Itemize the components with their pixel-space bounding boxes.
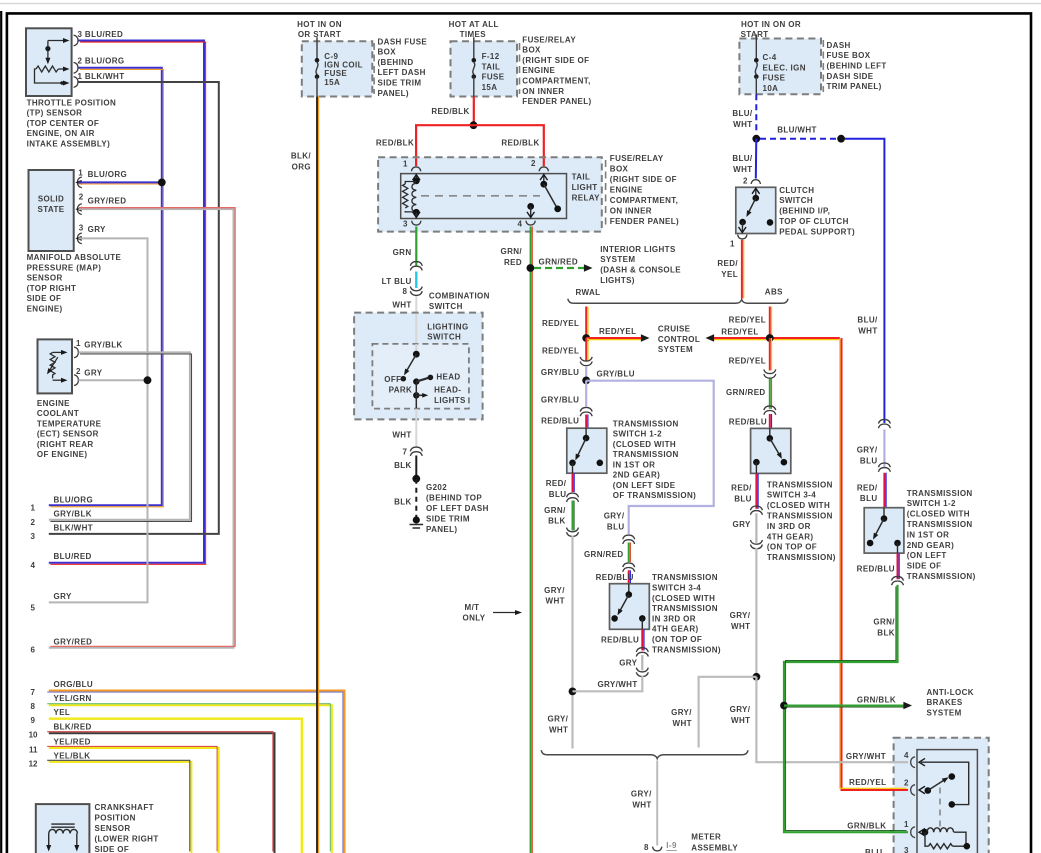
svg-text:TRANSMISSION: TRANSMISSION <box>652 604 718 613</box>
wire GRY/BLU short <box>585 366 587 380</box>
wire GRY/WHT from brace to meter <box>656 761 658 846</box>
dashed BLU/WHT horizontal <box>760 138 837 140</box>
switch arm bottom relay <box>925 787 932 794</box>
svg-text:BLU: BLU <box>549 490 567 499</box>
svg-text:TRANSMISSION: TRANSMISSION <box>907 520 973 529</box>
svg-text:4TH GEAR): 4TH GEAR) <box>767 532 814 541</box>
svg-text:BLK/: BLK/ <box>291 151 312 160</box>
wire RED/BLU into TS1-2 left <box>585 415 587 429</box>
ABS relay dashed box <box>894 738 989 853</box>
svg-text:OFF: OFF <box>384 375 401 384</box>
svg-text:BLU: BLU <box>860 494 878 503</box>
svg-text:OF LEFT DASH: OF LEFT DASH <box>426 504 489 513</box>
svg-text:SWITCH 1-2: SWITCH 1-2 <box>613 430 662 439</box>
wire RED/BLU below TS1-2 right <box>897 553 899 579</box>
svg-text:TOP OF CLUTCH: TOP OF CLUTCH <box>779 217 849 226</box>
svg-text:WHT: WHT <box>731 622 750 631</box>
svg-text:ENGINE): ENGINE) <box>27 304 63 313</box>
svg-text:(BEHIND LEFT: (BEHIND LEFT <box>827 62 887 71</box>
wire GRY: ECT pin2 to junction <box>79 379 148 381</box>
connector <box>764 369 776 378</box>
transmission switch 3-4 right box <box>751 428 791 473</box>
svg-text:ANTI-LOCK: ANTI-LOCK <box>927 688 974 697</box>
svg-text:4: 4 <box>31 561 36 570</box>
junction interior lights <box>527 264 535 272</box>
wire 7 ORG/BLU <box>49 691 345 853</box>
svg-text:WHT: WHT <box>731 716 750 725</box>
wire WHT below combination switch <box>415 409 417 448</box>
svg-text:M/T: M/T <box>465 603 480 612</box>
wire GRN/BLK branch to anti-lock arrow <box>784 705 904 707</box>
dashed BLU/WHT from C-4 <box>755 94 757 134</box>
svg-text:OR START: OR START <box>298 30 341 39</box>
wire RED/YEL long right drop to bottom relay pin 2 <box>842 338 907 790</box>
svg-text:HEAD-: HEAD- <box>434 385 461 394</box>
svg-text:WHT: WHT <box>733 165 752 174</box>
connector BLU/WHT to GRY/BLU far right <box>878 419 890 428</box>
svg-text:RED/BLU: RED/BLU <box>596 573 634 582</box>
svg-text:IN 1ST OR: IN 1ST OR <box>613 460 656 469</box>
svg-text:PEDAL SUPPORT): PEDAL SUPPORT) <box>779 227 855 236</box>
svg-text:WHT: WHT <box>632 801 651 810</box>
svg-text:IN 3RD OR: IN 3RD OR <box>767 522 811 531</box>
connector RED/YEL-GRY/BLU <box>580 357 592 366</box>
svg-text:ASSEMBLY: ASSEMBLY <box>691 844 738 853</box>
svg-text:TAIL: TAIL <box>572 172 591 181</box>
svg-text:4: 4 <box>518 219 523 228</box>
wire RED/YEL RWAL drop <box>585 307 587 339</box>
svg-text:ON INNER: ON INNER <box>610 207 652 216</box>
ECT pin 1 <box>74 347 78 358</box>
wire 10 BLK/RED <box>49 733 275 853</box>
wire RED/BLU below TS1-2 left <box>572 473 574 492</box>
svg-text:HOT IN ON: HOT IN ON <box>297 20 342 29</box>
svg-text:6: 6 <box>31 646 36 655</box>
relay pin 4 <box>911 757 915 768</box>
svg-text:PANEL): PANEL) <box>378 89 409 98</box>
tail light relay rect <box>401 174 567 219</box>
connector <box>750 506 762 515</box>
svg-text:(ECT) SENSOR: (ECT) SENSOR <box>37 430 99 439</box>
svg-text:5: 5 <box>31 604 36 613</box>
svg-text:ORG/BLU: ORG/BLU <box>54 680 94 689</box>
connector <box>636 668 648 677</box>
svg-text:TAIL: TAIL <box>482 62 501 71</box>
svg-text:RED/BLU: RED/BLU <box>541 416 579 425</box>
pin4 internal link <box>921 762 969 804</box>
svg-text:GRY/BLU: GRY/BLU <box>541 396 579 405</box>
MAP sensor box (solid state) <box>29 170 74 251</box>
svg-text:GRY/BLU: GRY/BLU <box>597 370 635 379</box>
svg-text:8: 8 <box>31 702 36 711</box>
svg-text:SYSTEM: SYSTEM <box>600 255 635 264</box>
svg-text:ENGINE, ON AIR: ENGINE, ON AIR <box>27 129 95 138</box>
svg-text:SIDE OF: SIDE OF <box>907 562 942 571</box>
connector pin 8 comb switch <box>410 287 422 296</box>
TP pin 1 <box>74 77 78 88</box>
relay pin 3 <box>412 221 421 225</box>
svg-text:RED/BLU: RED/BLU <box>729 418 767 427</box>
svg-text:HOT IN ON OR: HOT IN ON OR <box>741 20 801 29</box>
svg-text:WHT: WHT <box>392 431 411 440</box>
svg-text:BLU/: BLU/ <box>732 109 753 118</box>
svg-text:RED/YEL: RED/YEL <box>729 357 766 366</box>
svg-text:1 BLK/WHT: 1 BLK/WHT <box>78 72 125 81</box>
svg-text:C-4: C-4 <box>763 53 777 62</box>
svg-text:RED/YEL: RED/YEL <box>729 315 766 324</box>
connector <box>878 463 890 472</box>
transmission switch 1-2 right box <box>864 508 904 553</box>
svg-text:GRY/: GRY/ <box>548 714 569 723</box>
svg-text:(RIGHT REAR: (RIGHT REAR <box>37 440 94 449</box>
wire GRN/BLK down and to bottom relay pin 1 <box>784 585 907 832</box>
dashed actuation link <box>939 788 941 829</box>
svg-text:GRY/: GRY/ <box>730 705 751 714</box>
svg-text:3: 3 <box>31 532 36 541</box>
svg-text:TRANSMISSION): TRANSMISSION) <box>652 645 721 654</box>
svg-text:SWITCH 3-4: SWITCH 3-4 <box>652 584 701 593</box>
junction RED/YEL right <box>766 334 774 342</box>
connector <box>567 493 579 502</box>
svg-text:2: 2 <box>31 518 36 527</box>
svg-text:GRY: GRY <box>54 592 72 601</box>
wire BLU/RED: TP pin3 to wire 4 <box>49 41 204 563</box>
svg-text:WHT: WHT <box>673 719 692 728</box>
svg-text:1: 1 <box>904 820 909 829</box>
svg-text:SYSTEM: SYSTEM <box>927 709 962 718</box>
transmission switch 3-4 mid box <box>610 584 650 630</box>
junction cruise left <box>582 334 590 342</box>
wire GRY short right chain <box>755 513 757 543</box>
junction BLU/WHT 1 <box>752 135 760 143</box>
svg-text:RELAY: RELAY <box>572 194 601 203</box>
lighting switch inner dashed box <box>372 344 469 409</box>
svg-text:SIDE TRIM: SIDE TRIM <box>426 515 470 524</box>
svg-text:1: 1 <box>403 159 408 168</box>
svg-text:SWITCH 1-2: SWITCH 1-2 <box>907 499 956 508</box>
wire RED/YEL below junction <box>769 338 771 371</box>
wire RED/BLU into TS3-4 mid <box>628 570 630 583</box>
svg-text:YEL: YEL <box>721 270 738 279</box>
fuse F-12 TAIL <box>451 41 518 96</box>
svg-text:PRESSURE (MAP): PRESSURE (MAP) <box>27 263 102 272</box>
svg-text:CRANKSHAFT: CRANKSHAFT <box>95 803 154 812</box>
svg-text:RED/: RED/ <box>731 484 752 493</box>
meter assembly pin 8 <box>653 847 662 851</box>
svg-text:(ON TOP OF: (ON TOP OF <box>767 543 817 552</box>
svg-text:YEL/GRN: YEL/GRN <box>54 694 92 703</box>
wire RED/YEL clutch to brace <box>741 240 743 299</box>
left margin double bar <box>0 11 2 853</box>
svg-text:12: 12 <box>29 759 38 768</box>
junction BLU/WHT 2 <box>837 135 845 143</box>
svg-text:BRAKES: BRAKES <box>927 698 963 707</box>
svg-text:GRN/RED: GRN/RED <box>584 550 624 559</box>
svg-text:(TOP CENTER OF: (TOP CENTER OF <box>27 119 100 128</box>
svg-text:LT BLU: LT BLU <box>382 277 412 286</box>
svg-text:SIDE OF: SIDE OF <box>95 845 130 853</box>
svg-text:GRN/RED: GRN/RED <box>726 388 766 397</box>
ECT pin 2 <box>74 375 78 386</box>
svg-text:SYSTEM: SYSTEM <box>658 345 693 354</box>
wire stubs into bottom relay <box>890 761 908 763</box>
wire BLU/WHT to right drop <box>845 139 884 423</box>
fuse/relay dashed box <box>378 157 602 231</box>
svg-text:F-12: F-12 <box>482 52 500 61</box>
svg-text:GRY: GRY <box>619 658 637 667</box>
svg-text:7: 7 <box>31 688 36 697</box>
TP pin 3 <box>74 35 78 46</box>
wire LT BLU <box>415 272 417 289</box>
svg-text:PANEL): PANEL) <box>426 525 457 534</box>
svg-text:RED: RED <box>504 258 522 267</box>
svg-text:GRY/RED: GRY/RED <box>54 638 93 647</box>
wire GRY/WHT down right chain <box>755 548 757 677</box>
wire 12 YEL/BLK <box>49 762 192 853</box>
wire GRY: MAP pin3 to wire 5, junction at ECT pin2 <box>49 238 148 602</box>
svg-text:LIGHTING: LIGHTING <box>427 322 468 331</box>
svg-text:2ND GEAR): 2ND GEAR) <box>613 471 660 480</box>
svg-text:(BEHIND I/P,: (BEHIND I/P, <box>779 207 830 216</box>
wire GRY/WHT long down to brace <box>571 536 573 749</box>
lighting switch contacts <box>415 344 417 354</box>
svg-text:RED/: RED/ <box>546 479 567 488</box>
svg-text:TRANSMISSION: TRANSMISSION <box>613 450 679 459</box>
svg-text:FUSE BOX: FUSE BOX <box>827 51 871 60</box>
svg-text:GRY: GRY <box>733 520 751 529</box>
svg-text:CONTROL: CONTROL <box>658 335 700 344</box>
svg-text:10A: 10A <box>763 84 779 93</box>
svg-text:2 BLU/ORG: 2 BLU/ORG <box>78 57 125 66</box>
RED/BLK split junction <box>470 121 478 129</box>
svg-text:BLU: BLU <box>607 522 625 531</box>
clutch switch pin 1 <box>738 235 747 239</box>
ABS relay inner box <box>917 750 977 853</box>
svg-text:DASH SIDE: DASH SIDE <box>827 72 874 81</box>
page top thin rule <box>0 3 1041 5</box>
connector above LT BLU <box>410 262 422 271</box>
svg-text:7: 7 <box>403 448 408 457</box>
svg-text:TIMES: TIMES <box>460 30 487 39</box>
svg-text:BOX: BOX <box>378 48 397 57</box>
svg-text:SOLID: SOLID <box>38 195 64 204</box>
junction MAP pin1 <box>79 181 162 183</box>
svg-text:I-9: I-9 <box>666 841 677 850</box>
svg-text:3: 3 <box>79 224 84 233</box>
svg-text:BLU: BLU <box>865 848 883 853</box>
wire BLK/ORG from C-9 to bottom <box>316 97 318 853</box>
junction GRY/WHT left <box>569 688 577 696</box>
svg-text:3 BLU/RED: 3 BLU/RED <box>78 30 124 39</box>
ground G202 <box>413 516 420 523</box>
wire RED/BLK from F-12 <box>473 97 475 126</box>
svg-text:SWITCH: SWITCH <box>779 196 813 205</box>
svg-text:(BEHIND: (BEHIND <box>378 58 414 67</box>
svg-text:BLK: BLK <box>877 629 895 638</box>
wire RED/BLU into TS3-4 right <box>769 414 771 428</box>
svg-text:TEMPERATURE: TEMPERATURE <box>37 419 102 428</box>
wire GRN/RED relay pin4 to bottom <box>530 227 532 853</box>
wire RED/BLU into TS1-2 right <box>883 473 885 508</box>
relay pin 4 <box>526 221 535 225</box>
brace to meter assembly <box>541 750 748 758</box>
svg-text:HEAD: HEAD <box>436 372 460 381</box>
wire GRY/BLU branch right and down to mid column <box>586 381 714 534</box>
svg-text:BLK/RED: BLK/RED <box>54 723 92 732</box>
wire RED/BLK to relay pin 1 <box>416 125 473 166</box>
svg-text:ABS: ABS <box>765 288 783 297</box>
svg-text:(DASH & CONSOLE: (DASH & CONSOLE <box>600 266 681 275</box>
svg-text:SENSOR: SENSOR <box>27 274 63 283</box>
svg-text:BLK/WHT: BLK/WHT <box>54 524 94 533</box>
svg-text:GRY/: GRY/ <box>544 586 565 595</box>
svg-text:LIGHTS): LIGHTS) <box>600 276 635 285</box>
svg-text:BOX: BOX <box>610 165 629 174</box>
svg-text:(CLOSED WITH: (CLOSED WITH <box>767 501 830 510</box>
svg-text:1: 1 <box>76 339 81 348</box>
svg-text:GRN/RED: GRN/RED <box>539 258 579 267</box>
svg-text:GRY/BLK: GRY/BLK <box>84 341 122 350</box>
svg-text:RED/BLU: RED/BLU <box>857 565 895 574</box>
svg-text:MANIFOLD ABSOLUTE: MANIFOLD ABSOLUTE <box>27 253 122 262</box>
svg-text:FUSE: FUSE <box>763 74 786 83</box>
wire stubs into relay pins 1/2 <box>415 158 417 166</box>
svg-text:OF ENGINE): OF ENGINE) <box>37 450 87 459</box>
wire GRY/WHT down to bottom relay pin 4 <box>756 677 906 762</box>
svg-text:TRANSMISSION): TRANSMISSION) <box>907 572 976 581</box>
svg-text:SWITCH: SWITCH <box>429 302 463 311</box>
svg-text:GRN/: GRN/ <box>500 247 522 256</box>
svg-text:STATE: STATE <box>38 205 65 214</box>
svg-text:GRN/: GRN/ <box>873 617 895 626</box>
clutch switch box <box>736 187 776 233</box>
TP pin 2 <box>74 62 78 73</box>
svg-text:OF TRANSMISSION): OF TRANSMISSION) <box>613 491 696 500</box>
svg-text:BLU/WHT: BLU/WHT <box>777 126 817 135</box>
svg-text:COMPARTMENT,: COMPARTMENT, <box>522 77 590 86</box>
relay coil <box>415 174 417 181</box>
wire BLK/WHT: TP pin1 to wire 3 <box>49 82 219 534</box>
svg-text:COMPARTMENT,: COMPARTMENT, <box>610 196 678 205</box>
svg-text:BLU/RED: BLU/RED <box>54 552 92 561</box>
combination switch outer dashed box <box>354 313 483 420</box>
svg-text:RED/YEL: RED/YEL <box>542 319 579 328</box>
svg-text:TRANSMISSION: TRANSMISSION <box>767 480 833 489</box>
ECT sensor box <box>38 339 73 393</box>
wire GRY/BLU far right <box>883 430 885 468</box>
svg-text:LIGHT: LIGHT <box>572 183 598 192</box>
svg-text:GRY/WHT: GRY/WHT <box>597 680 637 689</box>
svg-text:PARK: PARK <box>389 385 413 394</box>
svg-text:BOX: BOX <box>522 46 541 55</box>
svg-text:2ND GEAR): 2ND GEAR) <box>907 541 954 550</box>
connector <box>567 528 579 537</box>
svg-text:2: 2 <box>531 159 536 168</box>
svg-text:DASH: DASH <box>827 41 851 50</box>
fuse C-4 ELEC IGN <box>739 39 821 95</box>
svg-text:ENGINE: ENGINE <box>522 66 555 75</box>
wire WHT into combination switch <box>415 296 417 354</box>
relay pin 2 <box>539 167 548 171</box>
CKP core and coil <box>51 823 74 825</box>
wire GRY/BLK: ECT pin1 to wire 2 <box>49 352 190 519</box>
junction GRY/BLU <box>582 377 590 385</box>
svg-text:BLK: BLK <box>548 517 566 526</box>
svg-text:(RIGHT SIDE OF: (RIGHT SIDE OF <box>522 56 589 65</box>
svg-text:INTERIOR LIGHTS: INTERIOR LIGHTS <box>600 245 676 254</box>
svg-text:FUSE/RELAY: FUSE/RELAY <box>610 154 664 163</box>
svg-text:GRY/BLK: GRY/BLK <box>54 510 92 519</box>
svg-text:1: 1 <box>78 169 83 178</box>
svg-text:START: START <box>741 30 769 39</box>
svg-text:11: 11 <box>29 746 38 755</box>
svg-text:IN 1ST OR: IN 1ST OR <box>907 530 950 539</box>
svg-text:BLU/ORG: BLU/ORG <box>88 170 128 179</box>
svg-text:YEL: YEL <box>54 708 71 717</box>
svg-text:GRY/: GRY/ <box>730 611 751 620</box>
svg-text:WHT: WHT <box>733 120 752 129</box>
svg-text:SWITCH 3-4: SWITCH 3-4 <box>767 491 816 500</box>
svg-text:TRANSMISSION: TRANSMISSION <box>767 512 833 521</box>
svg-text:SENSOR: SENSOR <box>95 824 131 833</box>
svg-text:RED/YEL: RED/YEL <box>599 327 636 336</box>
svg-text:ENGINE: ENGINE <box>610 186 643 195</box>
svg-text:15A: 15A <box>482 83 498 92</box>
wire GRY/WHT corner to left junction <box>573 676 643 692</box>
svg-text:3: 3 <box>403 219 408 228</box>
svg-text:GRY/: GRY/ <box>857 446 878 455</box>
junction GRN/BLK <box>780 702 788 710</box>
svg-text:1: 1 <box>31 504 36 513</box>
relay pin 2 <box>911 785 915 796</box>
svg-text:RED/BLK: RED/BLK <box>376 139 414 148</box>
svg-text:LEFT DASH: LEFT DASH <box>378 68 426 77</box>
wire GRN/BLK <box>572 501 574 531</box>
svg-text:RED/BLK: RED/BLK <box>431 107 469 116</box>
svg-text:TRANSMISSION: TRANSMISSION <box>907 489 973 498</box>
wire GRN/RED mid <box>628 543 630 563</box>
wire GRN/RED right chain <box>769 379 771 409</box>
wire 9 YEL <box>49 719 302 853</box>
svg-text:2: 2 <box>76 367 81 376</box>
svg-text:IN 3RD OR: IN 3RD OR <box>652 614 696 623</box>
connector <box>892 576 904 585</box>
connector <box>636 648 648 657</box>
wire RED/BLU below TS3-4 right <box>755 473 757 508</box>
svg-text:BLU/ORG: BLU/ORG <box>54 496 94 505</box>
svg-text:WHT: WHT <box>549 726 568 735</box>
svg-text:(CLOSED WITH: (CLOSED WITH <box>907 510 970 519</box>
dashed GRN/RED branch to interior lights <box>534 267 585 269</box>
junction GRY/WHT right <box>753 673 761 681</box>
svg-text:(BEHIND TOP: (BEHIND TOP <box>426 494 482 503</box>
connector <box>750 540 762 549</box>
svg-text:COMBINATION: COMBINATION <box>429 291 490 300</box>
svg-text:GRY/: GRY/ <box>604 512 625 521</box>
svg-text:4: 4 <box>904 751 909 760</box>
fuse C-9 IGN COIL <box>302 41 373 96</box>
connector pin 7 <box>410 447 422 456</box>
crankshaft position sensor box <box>36 804 90 853</box>
svg-text:RED/: RED/ <box>717 259 738 268</box>
wire 8 YEL/GRN <box>49 705 332 853</box>
svg-text:RWAL: RWAL <box>576 288 601 297</box>
throttle position sensor box <box>26 28 72 96</box>
svg-text:METER: METER <box>691 833 721 842</box>
svg-text:RED/BLK: RED/BLK <box>501 139 539 148</box>
svg-text:4TH GEAR): 4TH GEAR) <box>652 625 699 634</box>
svg-text:GRY: GRY <box>88 225 106 234</box>
